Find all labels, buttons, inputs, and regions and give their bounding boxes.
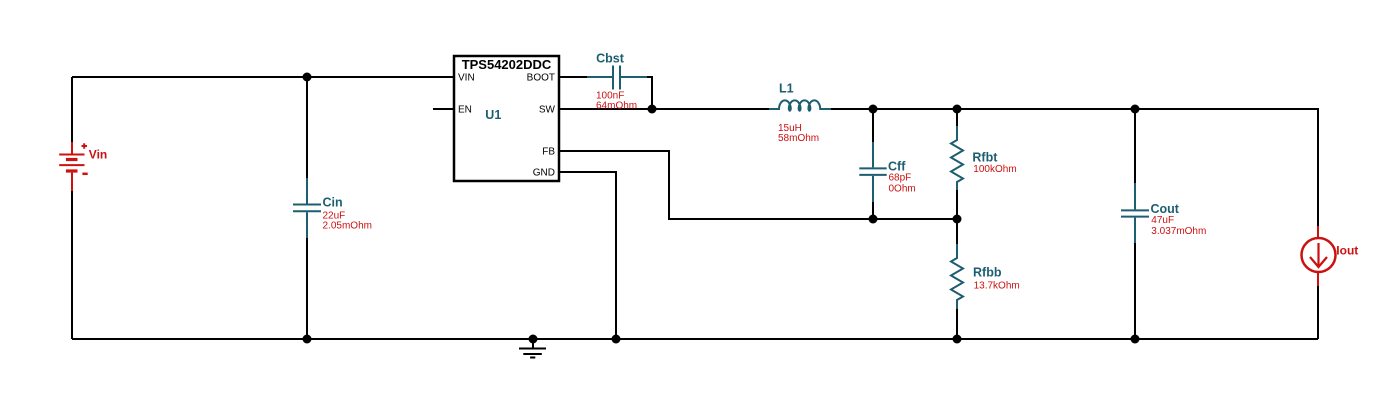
svg-text:EN: EN xyxy=(458,105,472,116)
svg-text:TPS54202DDC: TPS54202DDC xyxy=(462,57,552,72)
svg-text:Iout: Iout xyxy=(1336,244,1358,258)
svg-text:0Ohm: 0Ohm xyxy=(889,183,916,194)
svg-text:VIN: VIN xyxy=(458,73,475,84)
svg-text:13.7kOhm: 13.7kOhm xyxy=(974,280,1020,291)
svg-text:U1: U1 xyxy=(485,108,501,122)
svg-text:Cin: Cin xyxy=(323,196,343,210)
svg-text:Cbst: Cbst xyxy=(596,52,625,66)
svg-text:FB: FB xyxy=(542,147,555,158)
svg-text:Vin: Vin xyxy=(89,148,107,162)
svg-text:Cff: Cff xyxy=(888,159,906,173)
svg-text:GND: GND xyxy=(533,168,555,179)
svg-text:68pF: 68pF xyxy=(889,173,912,184)
svg-text:L1: L1 xyxy=(779,82,794,96)
svg-text:58mOhm: 58mOhm xyxy=(778,133,819,144)
svg-text:3.037mOhm: 3.037mOhm xyxy=(1151,226,1206,237)
svg-text:2.05mOhm: 2.05mOhm xyxy=(323,221,372,232)
svg-text:Rfbb: Rfbb xyxy=(973,266,1002,280)
svg-text:Rfbt: Rfbt xyxy=(972,151,998,165)
svg-text:64mOhm: 64mOhm xyxy=(596,100,637,111)
svg-text:47uF: 47uF xyxy=(1151,215,1174,226)
svg-text:BOOT: BOOT xyxy=(527,73,555,84)
svg-text:Cout: Cout xyxy=(1151,202,1180,216)
svg-text:100kOhm: 100kOhm xyxy=(973,164,1016,175)
svg-text:SW: SW xyxy=(539,105,556,116)
